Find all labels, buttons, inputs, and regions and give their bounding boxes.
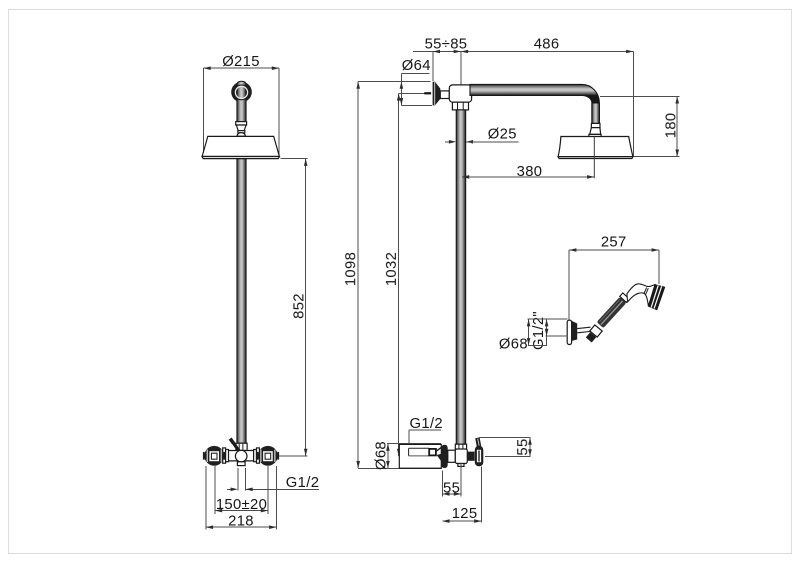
main riser pipe front view <box>237 159 246 443</box>
dimension label 55 left <box>443 480 460 496</box>
diverter boss front view <box>235 450 247 462</box>
arm collar side view <box>591 123 600 127</box>
shower arm with bend side view <box>470 84 599 123</box>
pipe ring front view <box>238 131 245 133</box>
right handle front view <box>257 446 279 466</box>
dimension label Ø64 <box>402 58 431 74</box>
extension line head edge <box>632 52 634 157</box>
svg-text:380: 380 <box>517 164 543 180</box>
head axis line <box>593 137 595 179</box>
extension line 125 <box>480 467 482 523</box>
dimension Ø64 lines <box>400 74 432 106</box>
svg-text:Ø64: Ø64 <box>402 58 431 74</box>
extension line right of Ø215 <box>278 68 280 156</box>
svg-text:1032: 1032 <box>384 252 400 286</box>
leader G1/2 side valve <box>409 430 441 444</box>
extension lines 150±20 <box>215 466 268 514</box>
dimension line 218 <box>206 525 276 529</box>
svg-text:G1/2": G1/2" <box>531 311 547 350</box>
arm band side view <box>589 134 601 137</box>
left handle front view <box>203 446 226 466</box>
dimension label G1/2 front <box>286 475 319 491</box>
shower head rim lip side view <box>558 157 633 159</box>
top dimension line <box>413 50 633 54</box>
leader G1/2 front <box>246 488 320 492</box>
handshower grip <box>597 297 627 328</box>
dimension label 1098 <box>343 252 359 286</box>
riser pipe side view <box>456 110 466 444</box>
dimension label Ø215 <box>222 54 260 70</box>
handshower neck and cup <box>627 284 655 307</box>
svg-text:150±20: 150±20 <box>216 497 267 513</box>
dimension line 55 right <box>528 438 532 457</box>
svg-text:Ø68: Ø68 <box>499 336 528 352</box>
dimension label 257 <box>601 235 627 251</box>
supply stub side view <box>424 92 431 94</box>
dimension line 55 left <box>442 492 461 496</box>
dimension line Ø68 side <box>386 444 390 469</box>
extension line wall plane <box>432 52 434 82</box>
handshower nut <box>590 325 602 337</box>
label G1/2 side valve <box>410 416 443 432</box>
dimension label Ø68 side <box>374 441 390 470</box>
valve nipple side view <box>458 464 464 467</box>
dimension line 125 <box>442 519 481 523</box>
wall flange side view <box>433 82 441 106</box>
valve outlet square side view <box>429 449 436 456</box>
valve cartridge side view <box>467 452 474 461</box>
valve tee body side view <box>455 449 467 464</box>
dimension 180 bottom connector <box>633 156 679 158</box>
svg-text:486: 486 <box>534 37 560 53</box>
svg-text:55: 55 <box>515 438 531 455</box>
arrow to outlet left <box>227 488 238 492</box>
dimension label 1032 <box>384 252 400 286</box>
shower head bell side view <box>558 137 633 157</box>
valve hex nut front view <box>236 443 247 450</box>
hose lines <box>577 327 590 333</box>
svg-text:55÷85: 55÷85 <box>425 37 468 53</box>
valve wall cup side view <box>399 444 441 468</box>
dimension 1098 bottom connector <box>358 467 441 469</box>
extension lines outlet G1/2 front <box>238 468 246 491</box>
dimension line Ø68 hand <box>527 319 531 345</box>
shower head rim lip front view <box>202 157 279 159</box>
extension lines 55 left <box>442 464 461 497</box>
upper shower pipe front view <box>234 81 249 122</box>
extension line 257 left <box>568 250 570 320</box>
hand dimension extension bottom <box>528 344 547 346</box>
diverter lever front view <box>229 438 240 453</box>
shower head bell front view <box>202 136 279 156</box>
dimension label 486 <box>534 37 560 53</box>
extension line 257 right <box>658 250 660 284</box>
bracket holder cone <box>571 321 577 341</box>
hand dimension extension top <box>528 318 568 320</box>
svg-text:G1/2: G1/2 <box>286 475 319 491</box>
dimension label 150±20 <box>216 497 267 513</box>
dimension line 380 <box>462 175 594 179</box>
dimension line 257 <box>569 248 659 252</box>
dimension line G1/2 inch hand <box>545 319 549 345</box>
dimension 55 right connectors <box>479 438 531 457</box>
dimension label 852 <box>291 293 307 319</box>
dimension line 852 <box>304 159 308 456</box>
dimension 852 bottom connector <box>279 455 308 457</box>
valve right connector pieces <box>254 448 260 463</box>
svg-text:180: 180 <box>663 113 679 139</box>
dimension label 125 <box>452 506 478 522</box>
dimension 1098 top connector <box>358 81 430 83</box>
valve collar band side view <box>441 445 447 468</box>
svg-text:Ø68: Ø68 <box>374 441 390 470</box>
dimension 180 top connector <box>600 95 680 97</box>
valve hex nut side view <box>455 444 466 449</box>
tee hex nut side view <box>452 102 468 110</box>
dimension 1032 top connector <box>399 92 425 94</box>
dimension line 180 <box>675 96 679 156</box>
svg-text:1098: 1098 <box>343 252 359 286</box>
valve handle stem side view <box>475 437 481 446</box>
extension line Ø68 side top <box>387 443 441 445</box>
dimension label Ø68 hand <box>499 336 528 352</box>
svg-text:Ø215: Ø215 <box>222 54 260 70</box>
flange connector cylinder side view <box>440 91 449 99</box>
svg-text:125: 125 <box>452 506 478 522</box>
pipe cone front view <box>236 125 246 131</box>
dimension 1032 bottom connector <box>399 455 429 457</box>
handshower face rim band <box>648 285 664 310</box>
valve neck cylinder side view <box>448 450 456 462</box>
dimension Ø25 arrows <box>445 140 518 144</box>
hand dimension extension mid <box>545 335 567 337</box>
svg-text:55: 55 <box>443 480 460 496</box>
valve handle side view <box>475 446 484 467</box>
dimension line 1098 <box>356 82 360 469</box>
dimension label 218 <box>228 514 254 530</box>
grip collar <box>620 293 630 303</box>
svg-text:852: 852 <box>291 293 307 319</box>
extension line left of Ø215 <box>203 68 205 156</box>
extension lines 218 <box>206 466 276 529</box>
ball joint front view <box>237 133 245 137</box>
dimension label 55÷85 <box>425 37 468 53</box>
arm cone side view <box>590 128 601 135</box>
pipe collar front view <box>236 122 247 125</box>
tee body side view <box>449 85 471 102</box>
svg-text:257: 257 <box>601 235 627 251</box>
dimension label G1/2 inch hand <box>531 311 547 350</box>
dimension label 380 <box>517 164 543 180</box>
dimension line Ø215 <box>204 66 280 70</box>
extension line riser axis <box>460 52 462 93</box>
valve body front view <box>223 451 260 461</box>
valve socket lines side view <box>409 448 430 456</box>
dimension label 180 <box>663 113 679 139</box>
dimension label 55 right <box>515 438 531 455</box>
valve left connector pieces <box>223 448 229 463</box>
dimension label Ø25 <box>488 126 517 142</box>
outlet nipple front view <box>237 462 245 466</box>
dimension line 1032 <box>397 93 401 456</box>
diverter wedge side view <box>436 447 441 461</box>
handshower wall bracket <box>567 320 571 344</box>
svg-text:G1/2: G1/2 <box>410 416 443 432</box>
dimension line 150±20 <box>215 509 268 513</box>
dimension 852 top connector <box>280 158 307 160</box>
ceiling escutcheon front view <box>231 82 252 103</box>
hose connector <box>586 332 596 342</box>
svg-text:218: 218 <box>228 514 254 530</box>
svg-text:Ø25: Ø25 <box>488 126 517 142</box>
